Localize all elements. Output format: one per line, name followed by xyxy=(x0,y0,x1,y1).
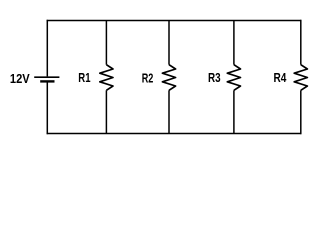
resistor R2 xyxy=(162,65,175,91)
wire left rail lower xyxy=(46,82,48,134)
wire top rail xyxy=(47,20,302,22)
battery V1 negative plate xyxy=(40,80,54,82)
resistor R3 xyxy=(227,65,240,91)
wire bottom rail xyxy=(47,133,302,135)
svg-text:R1: R1 xyxy=(78,70,90,85)
wire right rail upper xyxy=(300,20,302,65)
wire right rail lower xyxy=(300,90,302,134)
svg-text:12V: 12V xyxy=(10,71,30,86)
resistor R1 xyxy=(100,65,113,91)
wire branch R2 lower xyxy=(168,90,170,133)
svg-text:R4: R4 xyxy=(274,70,287,85)
svg-text:R3: R3 xyxy=(208,70,221,85)
wire branch R2 upper xyxy=(168,21,170,65)
svg-text:R2: R2 xyxy=(142,71,154,86)
wire branch R3 lower xyxy=(233,90,235,133)
wire left rail upper xyxy=(46,20,48,77)
wire branch R1 lower xyxy=(105,90,107,133)
resistor R4 xyxy=(294,65,307,91)
battery V1 positive plate xyxy=(34,76,59,78)
wire branch R3 upper xyxy=(233,21,235,65)
wire branch R1 upper xyxy=(105,21,107,65)
